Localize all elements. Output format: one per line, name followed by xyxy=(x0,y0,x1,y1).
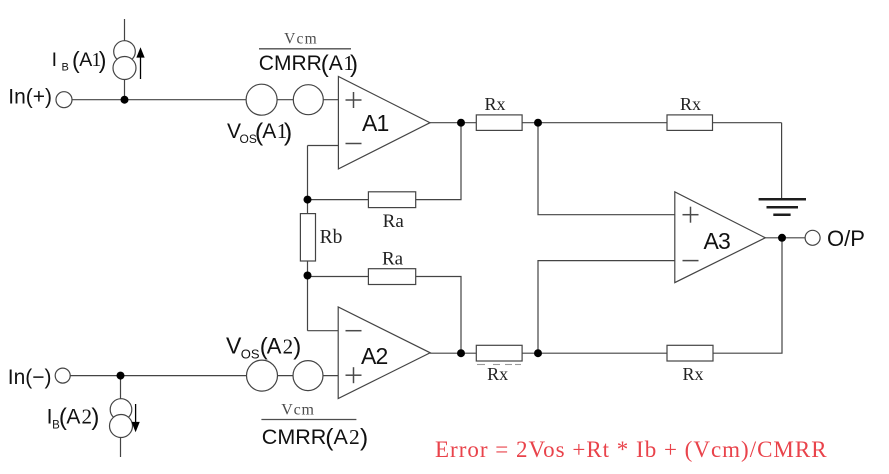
svg-text:Ra: Ra xyxy=(382,248,404,269)
svg-text:VOS(A2): VOS(A2) xyxy=(226,332,301,361)
svg-text:O/P: O/P xyxy=(827,226,865,251)
svg-text:Rx: Rx xyxy=(484,94,505,114)
svg-text:VOS(A1): VOS(A1) xyxy=(227,119,292,147)
svg-text:Vcm: Vcm xyxy=(284,31,318,48)
svg-text:CMRR(A1): CMRR(A1) xyxy=(259,51,358,78)
svg-text:In(−): In(−) xyxy=(8,366,52,389)
svg-text:A1: A1 xyxy=(362,110,389,136)
svg-text:Rx: Rx xyxy=(680,94,701,114)
svg-text:Error = 2Vos +Rt * Ib + (Vcm)/: Error = 2Vos +Rt * Ib + (Vcm)/CMRR xyxy=(435,437,828,462)
svg-text:A3: A3 xyxy=(704,228,731,254)
svg-text:Ra: Ra xyxy=(383,211,405,232)
svg-text:Rb: Rb xyxy=(320,227,343,248)
svg-text:Vcm: Vcm xyxy=(281,402,315,419)
svg-text:CMRR(A2): CMRR(A2) xyxy=(262,424,368,451)
svg-text:A2: A2 xyxy=(361,343,388,369)
svg-text:Rx: Rx xyxy=(487,364,508,384)
svg-text:Rx: Rx xyxy=(682,364,703,384)
svg-text:In(+): In(+) xyxy=(8,86,52,109)
